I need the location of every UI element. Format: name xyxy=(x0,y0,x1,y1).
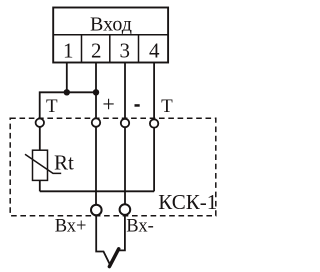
junction dot at pin2 wire xyxy=(93,89,99,95)
svg-text:3: 3 xyxy=(120,38,131,62)
svg-text:+: + xyxy=(102,92,114,117)
terminal circle - xyxy=(121,119,129,127)
wire Вх+ down to sensor probe xyxy=(96,216,111,267)
label - terminal xyxy=(135,104,140,107)
wire pin1 stub down to jumper bus xyxy=(66,63,68,93)
connection box КСК-1 dashed outline xyxy=(10,118,216,216)
output terminal circle Вх+ xyxy=(91,205,102,216)
junction dot at pin1 wire xyxy=(64,89,70,95)
wire pin2 down to terminal + xyxy=(95,63,97,119)
resistor Rt body xyxy=(33,150,48,180)
svg-text:T: T xyxy=(46,96,58,117)
wire Вх- down to sensor probe xyxy=(119,215,125,250)
wire up to T right terminal xyxy=(153,128,155,191)
output terminal circle Вх- xyxy=(120,204,131,215)
wire bottom horizontal Rt to T right xyxy=(40,190,154,192)
svg-text:Вх+: Вх+ xyxy=(55,217,87,237)
wire - terminal down to Вх- xyxy=(124,127,126,203)
terminal circle T right xyxy=(150,119,158,127)
terminal circle + xyxy=(92,118,100,126)
svg-text:2: 2 xyxy=(91,38,102,62)
terminal block U1 "Вход" outer box xyxy=(53,8,168,63)
wire Rt bottom down xyxy=(39,180,41,191)
terminal block row divider xyxy=(53,34,168,36)
resistor Rt temperature-dependence diagonal stroke with tail xyxy=(25,154,61,173)
terminal circle T left xyxy=(36,119,44,127)
terminal block cell divider a xyxy=(81,35,83,63)
wire T left terminal down to Rt top xyxy=(39,127,41,150)
svg-text:4: 4 xyxy=(149,38,160,62)
terminal block cell divider c xyxy=(138,35,140,63)
wire pin3 down to terminal - xyxy=(124,63,126,119)
terminal block cell divider b xyxy=(109,35,111,63)
wire + terminal down to Вх+ xyxy=(95,127,97,204)
svg-text:Rt: Rt xyxy=(54,150,74,174)
wire pin4 down to terminal T right xyxy=(153,63,155,120)
svg-text:1: 1 xyxy=(63,38,74,62)
svg-text:Вход: Вход xyxy=(90,13,132,35)
wire jumper bus pins 1-2 with corner down to terminal T left xyxy=(40,92,96,118)
svg-text:Вх-: Вх- xyxy=(126,217,154,237)
svg-text:T: T xyxy=(161,96,173,117)
sensor probe tip thick stroke xyxy=(109,249,118,267)
svg-text:КСК-1: КСК-1 xyxy=(158,190,217,214)
